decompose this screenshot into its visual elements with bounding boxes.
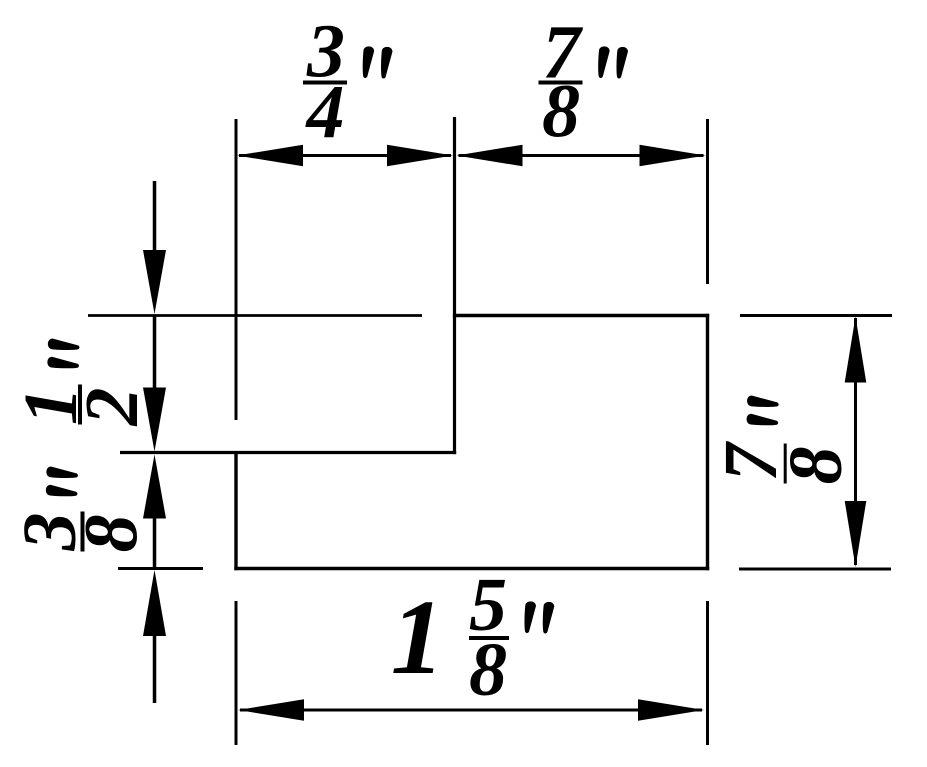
extension line bottom right vertical	[706, 601, 709, 745]
part right edge	[706, 314, 709, 570]
arrowhead left of 3/4 dim	[237, 145, 303, 167]
svg-text:8: 8	[774, 447, 858, 485]
label 3/8 inch left (rotated)	[8, 467, 154, 553]
arrowhead left of 7/8 top dim	[457, 145, 523, 167]
arrowhead right of 3/4 dim	[387, 145, 453, 167]
leader between faces	[153, 316, 157, 392]
extension line left top vertical	[235, 119, 238, 420]
svg-text:8: 8	[542, 70, 580, 154]
arrowhead right of 7/8 top dim	[640, 145, 706, 167]
extension line left horizontal at bottom face level	[118, 567, 203, 570]
extension line bottom left vertical	[235, 601, 238, 745]
label 3/4 inch	[303, 10, 393, 155]
leader below bottom face	[153, 634, 157, 703]
extension line right horizontal at bottom face level	[739, 568, 891, 571]
svg-text:8: 8	[469, 628, 507, 712]
dimension line 1 5/8 inch bottom	[240, 709, 702, 712]
arrowhead up to step face	[143, 455, 166, 519]
label 7/8 inch right (rotated)	[709, 396, 858, 485]
arrowhead left of bottom dim	[238, 699, 304, 721]
arrowhead up to bottom face	[143, 570, 166, 636]
arrowhead bottom of right 7/8 dim	[845, 501, 867, 567]
svg-text:2: 2	[70, 388, 154, 427]
extension line right top vertical	[706, 119, 709, 284]
part top edge	[453, 314, 709, 317]
leader below step face	[153, 516, 157, 569]
label 1 5/8 inch bottom	[391, 563, 555, 712]
extension line left horizontal at top face level	[88, 314, 422, 317]
extension line right horizontal at top face level	[740, 314, 892, 317]
arrowhead down to top face	[143, 250, 166, 314]
arrowhead down to step face	[143, 388, 166, 452]
svg-text:4: 4	[305, 71, 345, 155]
dimension line 3/4 inch	[239, 154, 451, 157]
arrowhead top of right 7/8 dim	[845, 317, 867, 383]
left dimension chain leader above 1/2 dim	[153, 181, 157, 255]
part step horizontal edge + left extension line	[120, 451, 456, 454]
label 1/2 inch left (rotated)	[9, 339, 154, 427]
dimension line 7/8 inch top	[459, 154, 704, 157]
svg-text:8: 8	[70, 515, 154, 553]
dimension line 7/8 inch right side	[854, 318, 857, 565]
arrowhead right of bottom dim	[638, 699, 704, 721]
label 7/8 inch top	[539, 11, 629, 154]
part step vertical edge + top extension line	[453, 117, 456, 454]
svg-text:1: 1	[391, 579, 445, 697]
part bottom edge	[234, 567, 709, 570]
part left edge	[234, 453, 237, 571]
